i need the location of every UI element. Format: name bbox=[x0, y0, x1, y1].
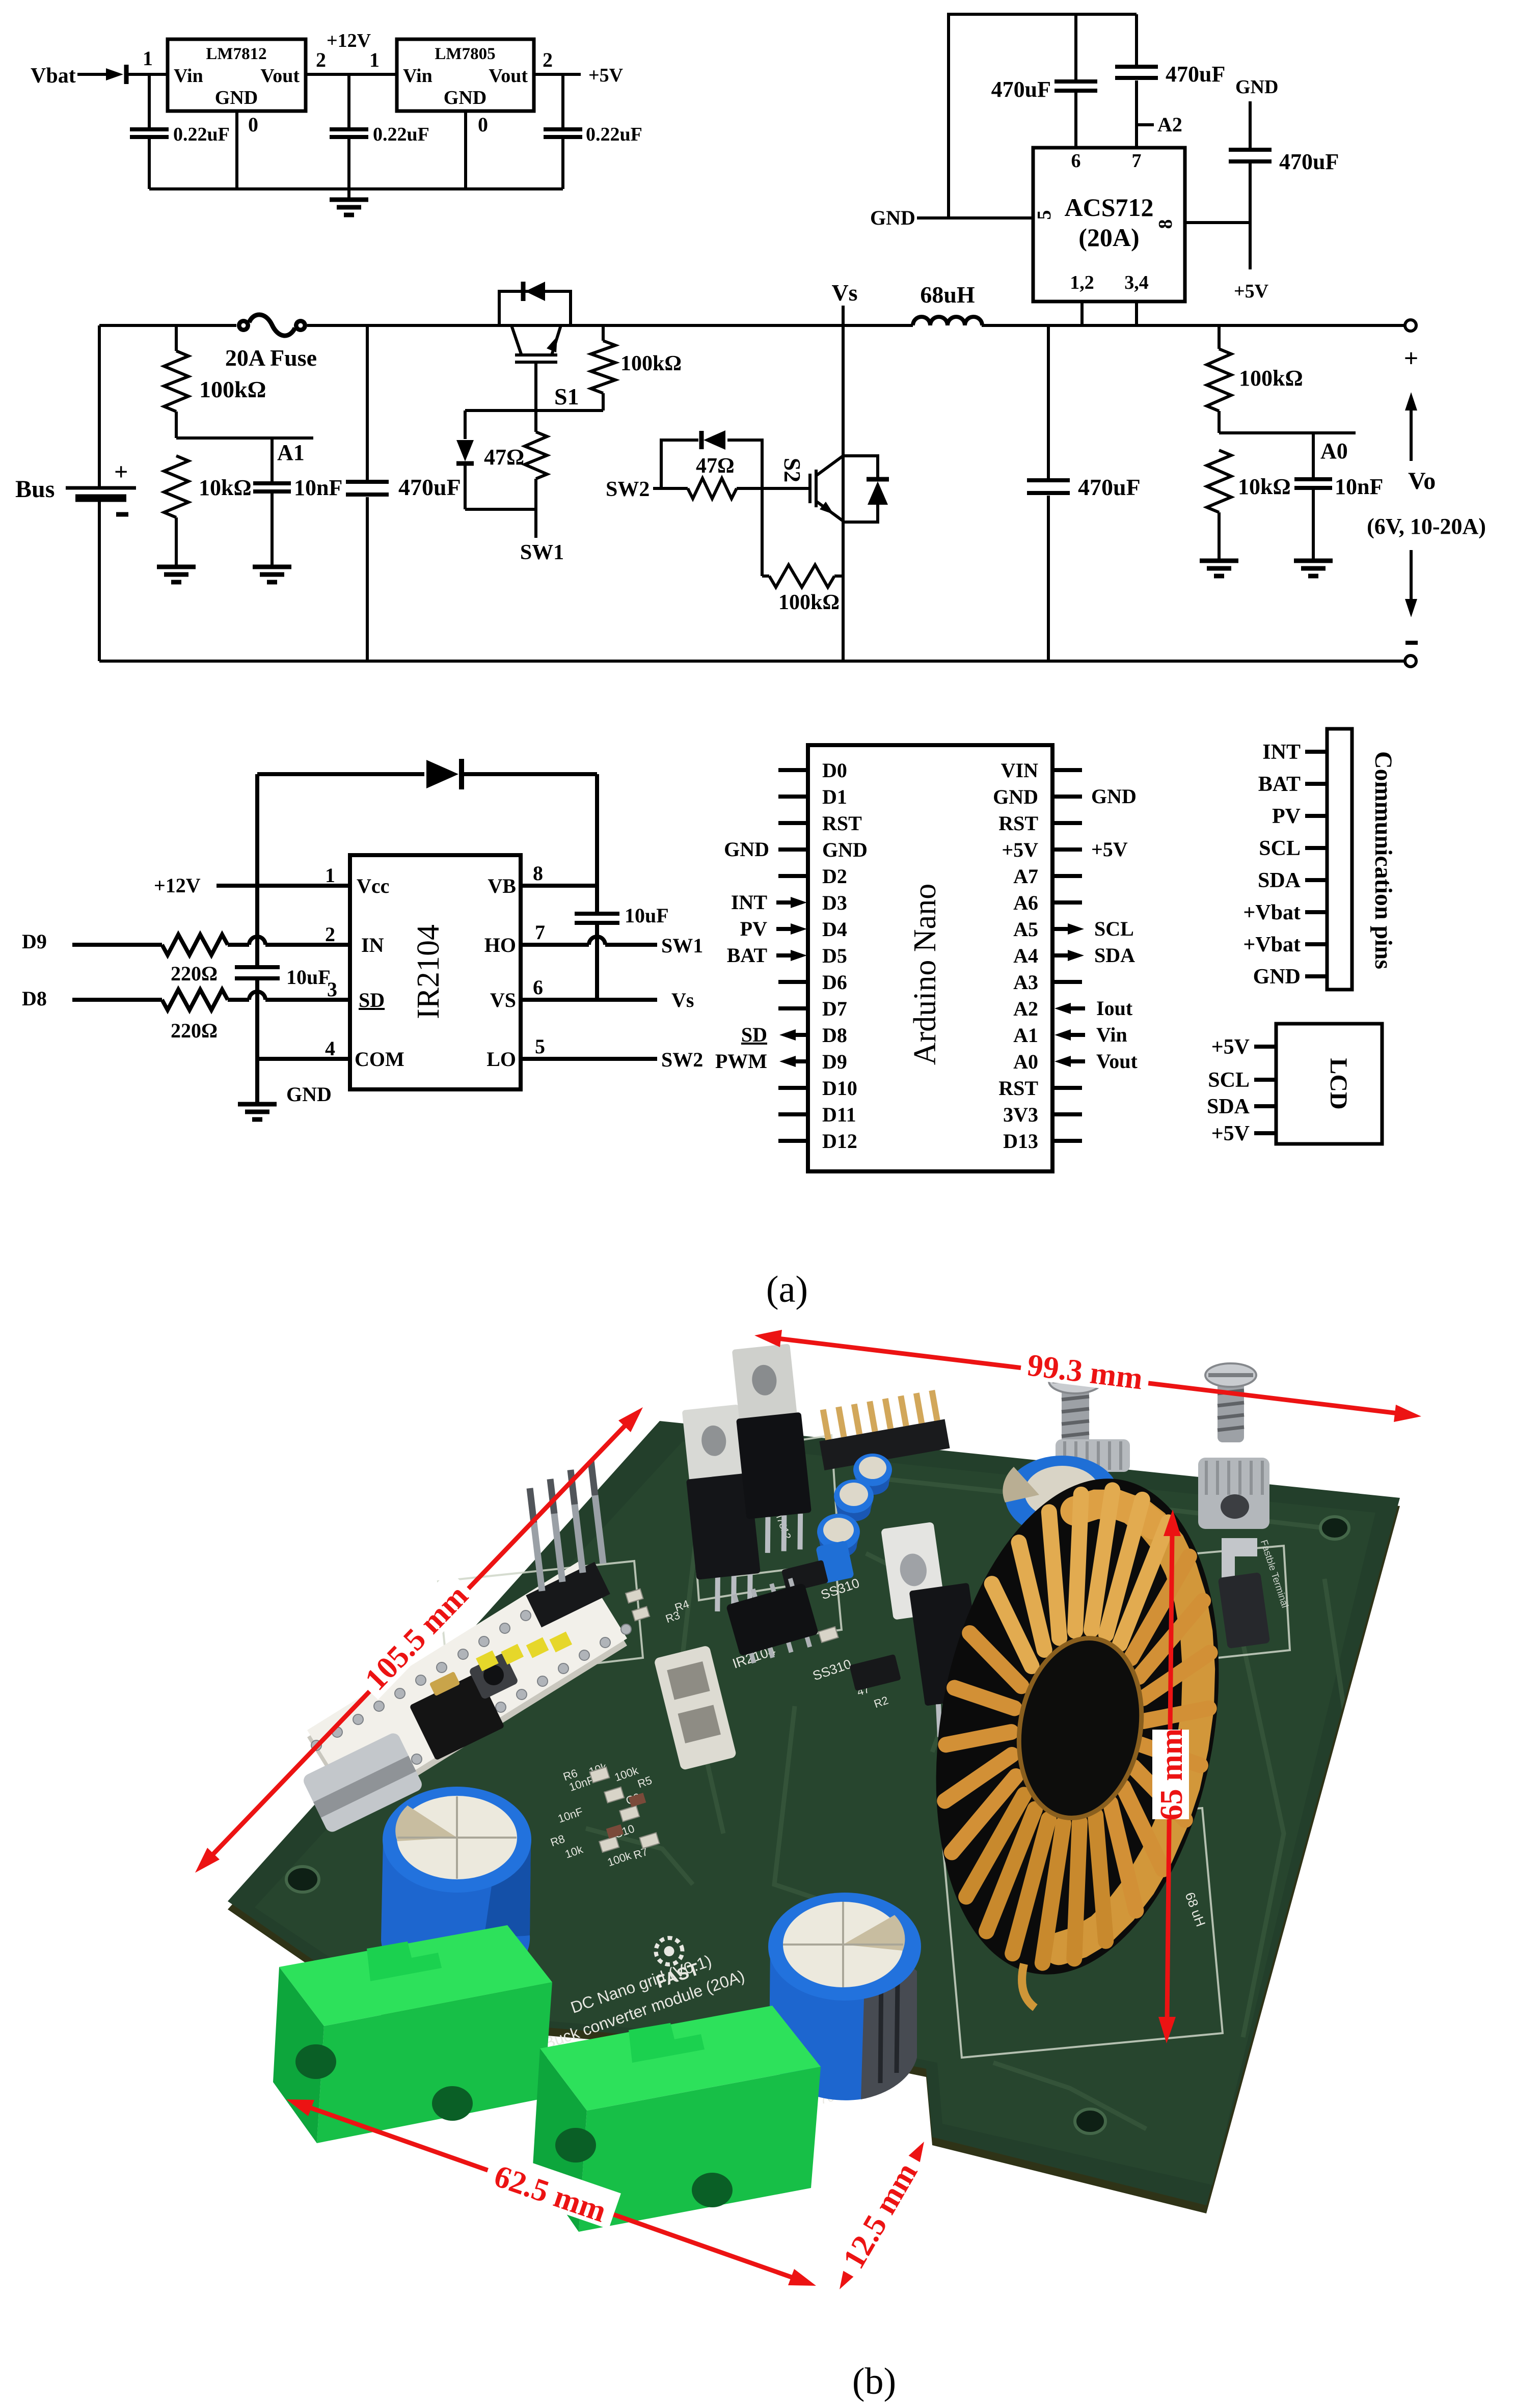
arduino atmega chip bbox=[409, 1672, 504, 1761]
wire VS pin 6 bbox=[521, 998, 657, 1002]
ground A0 filter bbox=[1294, 561, 1333, 576]
svg-text:HO: HO bbox=[484, 934, 516, 956]
svg-text:Vout: Vout bbox=[1096, 1050, 1138, 1073]
svg-text:10nF: 10nF bbox=[1335, 474, 1383, 499]
svg-text:COM: COM bbox=[355, 1048, 404, 1071]
svg-text:0.22uF: 0.22uF bbox=[586, 124, 642, 145]
wire +12V to Vcc pin 1 bbox=[217, 884, 350, 888]
svg-text:SD: SD bbox=[359, 989, 385, 1011]
pin GND (comm) bbox=[1305, 974, 1327, 978]
svg-text:D5: D5 bbox=[822, 944, 847, 967]
wire 7805 Vout to +5V bbox=[534, 73, 581, 76]
capacitor 10nF A0 filter bbox=[1312, 433, 1315, 478]
svg-text:Vo: Vo bbox=[1408, 468, 1436, 495]
pin +5V (LCD) bbox=[1254, 1045, 1276, 1049]
svg-text:0: 0 bbox=[478, 113, 488, 136]
capacitor 470uF (pin6) bbox=[1055, 89, 1097, 93]
arduino mini-usb bbox=[301, 1731, 424, 1835]
svg-text:SW1: SW1 bbox=[661, 934, 703, 957]
capacitor 470uF output bbox=[1047, 325, 1050, 478]
svg-text:A3: A3 bbox=[1013, 971, 1038, 994]
svg-text:+5V: +5V bbox=[1002, 838, 1038, 861]
svg-text:6: 6 bbox=[533, 976, 543, 999]
svg-text:220Ω: 220Ω bbox=[171, 962, 218, 985]
pin header (top) bbox=[814, 1389, 950, 1470]
svg-text:68uH: 68uH bbox=[920, 282, 975, 308]
svg-text:A5: A5 bbox=[1013, 918, 1038, 941]
svg-text:A6: A6 bbox=[1013, 891, 1038, 914]
node A2 stub bbox=[1137, 123, 1154, 126]
wire 7805 GND pin 0 bbox=[464, 111, 467, 189]
inductor L1 68uH bbox=[913, 317, 982, 325]
transistor S2 (IGBT) bbox=[810, 456, 843, 521]
resistor 100k (bus divider upper) bbox=[175, 325, 178, 351]
wire bus left vertical bbox=[98, 325, 101, 487]
svg-text:GND: GND bbox=[1235, 76, 1278, 98]
arduino leds bbox=[476, 1618, 572, 1685]
svg-text:VIN: VIN bbox=[1001, 759, 1038, 782]
svg-text:Vbat: Vbat bbox=[31, 64, 76, 88]
ic IR2104 SOIC8 bbox=[723, 1575, 821, 1666]
wire top rail (bus side) bbox=[99, 324, 236, 327]
svg-text:Arduino Nano: Arduino Nano bbox=[908, 884, 942, 1065]
svg-text:GND: GND bbox=[1253, 965, 1301, 989]
svg-text:BAT: BAT bbox=[727, 944, 768, 967]
PCB traces bbox=[586, 1477, 1355, 2129]
PCB silkscreen outlines bbox=[438, 1435, 1290, 2058]
svg-text:GND: GND bbox=[993, 785, 1038, 808]
svg-text:47Ω: 47Ω bbox=[484, 445, 524, 470]
svg-text:(20A): (20A) bbox=[1078, 223, 1139, 252]
diode bootstrap bbox=[426, 760, 458, 788]
svg-text:D3: D3 bbox=[822, 891, 847, 914]
svg-text:0: 0 bbox=[248, 113, 258, 136]
PCB mounting holes bbox=[1320, 1517, 1349, 1539]
svg-text:2: 2 bbox=[543, 48, 553, 71]
svg-text:470uF: 470uF bbox=[1166, 62, 1225, 87]
svg-text:Vs: Vs bbox=[831, 280, 857, 306]
svg-text:(b): (b) bbox=[852, 2361, 896, 2402]
svg-text:Vcc: Vcc bbox=[357, 874, 389, 897]
resistor 10k (bus divider lower) bbox=[164, 456, 188, 517]
svg-text:+5V: +5V bbox=[1091, 838, 1128, 861]
wire bootstrap top bbox=[257, 772, 424, 776]
transistor S1 (IGBT) bbox=[511, 325, 561, 411]
svg-text:6: 6 bbox=[1071, 150, 1081, 172]
svg-text:+5V: +5V bbox=[1234, 281, 1269, 302]
svg-text:RST: RST bbox=[822, 812, 862, 835]
svg-text:D6: D6 bbox=[822, 971, 847, 994]
wire bottom rail bbox=[99, 660, 1404, 663]
arduino oscillator bbox=[429, 1672, 461, 1696]
svg-text:GND: GND bbox=[215, 87, 258, 108]
capacitor 470uF (pin7) bbox=[1115, 76, 1158, 80]
svg-text:7: 7 bbox=[1132, 150, 1142, 172]
svg-text:INT: INT bbox=[731, 891, 767, 914]
arduino pushbutton bbox=[468, 1652, 519, 1700]
diode SS310 (lower) bbox=[849, 1654, 901, 1691]
svg-text:Vin: Vin bbox=[403, 65, 432, 87]
pin PV (comm) bbox=[1305, 814, 1327, 818]
pin INT (comm) bbox=[1305, 750, 1327, 754]
svg-text:IR2104: IR2104 bbox=[411, 924, 446, 1019]
svg-text:(6V, 10-20A): (6V, 10-20A) bbox=[1367, 514, 1486, 539]
wire ACS712 pin 3,4 to output rail bbox=[1135, 302, 1138, 325]
svg-text:GND: GND bbox=[444, 87, 486, 108]
svg-text:A7: A7 bbox=[1013, 865, 1038, 888]
wire SW1 node bbox=[465, 508, 536, 511]
svg-text:D12: D12 bbox=[822, 1130, 857, 1153]
dimension arrow 105.5 mm bbox=[211, 1424, 627, 1856]
svg-text:+: + bbox=[114, 458, 128, 485]
diode S1 anti-parallel bbox=[499, 291, 571, 325]
svg-text:Vs: Vs bbox=[671, 989, 694, 1011]
capacitor C-mid 0.22uF bbox=[347, 74, 350, 128]
pin SDA (comm) bbox=[1305, 878, 1327, 882]
diode S1 gate speedup bbox=[464, 411, 467, 439]
svg-text:20A Fuse: 20A Fuse bbox=[225, 345, 317, 371]
resistor 220 (D9) bbox=[72, 943, 162, 947]
transistor TO-220 (mid, white tab) bbox=[881, 1518, 989, 1741]
resistor 100k S1 gate-emitter bbox=[602, 325, 605, 341]
svg-text:D8: D8 bbox=[822, 1024, 847, 1047]
node output - terminal bbox=[1405, 655, 1416, 667]
svg-text:LM7805: LM7805 bbox=[435, 45, 495, 63]
svg-text:+5V: +5V bbox=[588, 65, 624, 86]
svg-text:SW2: SW2 bbox=[606, 478, 650, 501]
dimension arrow 99.3 mm bbox=[778, 1338, 1398, 1413]
ground output divider bbox=[1200, 561, 1238, 576]
resistor 220 (D8) bbox=[72, 998, 162, 1002]
wire COM pin 4 to ground bbox=[257, 1057, 350, 1061]
svg-text:INT: INT bbox=[1262, 741, 1301, 764]
svg-text:S2: S2 bbox=[779, 458, 805, 483]
svg-text:PV: PV bbox=[740, 917, 767, 940]
svg-text:0.22uF: 0.22uF bbox=[173, 124, 230, 145]
sensor U-ACS712 bbox=[1033, 148, 1185, 302]
terminal clamp grey (behind toroid) bbox=[1056, 1439, 1130, 1472]
diode S2 anti-parallel bbox=[843, 456, 878, 477]
diode S2 gate speedup bbox=[661, 440, 698, 488]
svg-text:0.22uF: 0.22uF bbox=[373, 124, 429, 145]
svg-text:10nF: 10nF bbox=[294, 475, 342, 500]
PCB board top surface bbox=[228, 1429, 1400, 2213]
terminal clamp grey (right) bbox=[1198, 1458, 1270, 1649]
svg-text:SDA: SDA bbox=[1207, 1095, 1250, 1118]
wire S1 gate node bbox=[465, 409, 603, 412]
svg-text:2: 2 bbox=[325, 923, 335, 946]
svg-text:SDA: SDA bbox=[1258, 869, 1301, 892]
inductor leads bbox=[1022, 1964, 1035, 2008]
fuse F1 20A bbox=[237, 319, 250, 332]
capacitor electrolytic blue (left large) bbox=[381, 1787, 531, 1989]
svg-text:A4: A4 bbox=[1013, 944, 1038, 967]
svg-text:+5V: +5V bbox=[1211, 1122, 1250, 1145]
svg-text:470uF: 470uF bbox=[991, 77, 1051, 102]
svg-text:1: 1 bbox=[369, 48, 380, 71]
svg-text:Vout: Vout bbox=[260, 65, 300, 87]
resistor 10k output divider lower bbox=[1207, 450, 1231, 512]
wire LO pin 5 to SW2 bbox=[521, 1057, 657, 1061]
node A1 line bbox=[176, 436, 313, 440]
capacitor 470uF input bbox=[366, 325, 369, 480]
dimension arrow 12.5 mm bbox=[851, 2162, 912, 2269]
mcu U-Arduino-Nano bbox=[808, 745, 1052, 1171]
svg-text:100kΩ: 100kΩ bbox=[778, 591, 840, 614]
svg-text:D4: D4 bbox=[822, 918, 847, 941]
svg-text:+Vbat: +Vbat bbox=[1243, 933, 1301, 956]
svg-text:(a): (a) bbox=[766, 1269, 808, 1310]
pin +Vbat (comm) bbox=[1305, 942, 1327, 946]
svg-text:470uF: 470uF bbox=[398, 474, 461, 500]
wire top rail (fuse to inductor) bbox=[307, 324, 913, 327]
svg-text:4: 4 bbox=[325, 1037, 335, 1060]
wire Vcc vertical (bootstrap anode / bypass) bbox=[255, 774, 259, 965]
wire 7812 Vout to 7805 Vin (+12V node) bbox=[306, 73, 397, 76]
capacitor C-out 0.22uF bbox=[561, 74, 564, 128]
svg-text:SW2: SW2 bbox=[661, 1048, 703, 1071]
svg-text:D9: D9 bbox=[822, 1050, 847, 1073]
screw (left) bbox=[1049, 1369, 1102, 1451]
svg-text:2: 2 bbox=[316, 48, 326, 71]
resistor 47ohm S1 gate bbox=[534, 411, 537, 432]
dimension arrow 62.5 mm bbox=[308, 2107, 794, 2278]
wire 7812 GND pin 0 bbox=[235, 111, 238, 189]
svg-text:D8: D8 bbox=[22, 987, 47, 1010]
svg-text:100kΩ: 100kΩ bbox=[620, 352, 682, 375]
svg-text:Vin: Vin bbox=[1096, 1023, 1127, 1046]
svg-text:Vout: Vout bbox=[489, 65, 528, 87]
svg-text:+: + bbox=[1404, 344, 1419, 372]
svg-text:47Ω: 47Ω bbox=[696, 454, 735, 478]
wire regulator ground rail bbox=[149, 187, 563, 190]
svg-text:5: 5 bbox=[1034, 210, 1055, 220]
svg-text:D10: D10 bbox=[822, 1077, 857, 1100]
svg-text:GND: GND bbox=[870, 206, 915, 229]
svg-text:Vin: Vin bbox=[174, 65, 203, 87]
wire bootstrap vertical to VB/VS bbox=[595, 774, 599, 912]
svg-text:8: 8 bbox=[1155, 220, 1176, 229]
terminal block green (left) bbox=[273, 1925, 552, 2143]
wire HO pin 7 to SW1 (hop over bootstrap) bbox=[521, 943, 589, 947]
terminal block green (right) bbox=[533, 2006, 821, 2232]
svg-text:470uF: 470uF bbox=[1078, 474, 1141, 500]
capacitor 470uF (Vcc) bbox=[1249, 101, 1252, 148]
capacitor C-in 0.22uF bbox=[148, 74, 151, 128]
svg-text:100kΩ: 100kΩ bbox=[199, 376, 266, 402]
svg-text:VS: VS bbox=[490, 989, 516, 1011]
silkscreen FAST logo bbox=[644, 1931, 702, 1992]
svg-text:RST: RST bbox=[998, 812, 1038, 835]
ground regulator rail bbox=[347, 189, 350, 199]
ground A1 filter bbox=[253, 567, 291, 582]
svg-text:1: 1 bbox=[143, 47, 153, 70]
wire Vbat input with arrow bbox=[77, 73, 168, 76]
wire Vs vertical / S2 collector-emitter bbox=[842, 306, 845, 661]
svg-text:PWM: PWM bbox=[715, 1050, 767, 1073]
svg-text:8: 8 bbox=[533, 862, 543, 885]
PCB copper pour regions bbox=[255, 1441, 1375, 2185]
svg-text:A0: A0 bbox=[1013, 1050, 1038, 1073]
svg-text:A1: A1 bbox=[277, 440, 305, 465]
svg-text:SCL: SCL bbox=[1094, 917, 1134, 940]
svg-text:+Vbat: +Vbat bbox=[1243, 901, 1301, 924]
inductor toroid 68uH bbox=[900, 1456, 1256, 1997]
svg-text:10kΩ: 10kΩ bbox=[199, 475, 252, 500]
wire ACS712 top loop bbox=[949, 14, 1137, 218]
transistor TO-220 pair (regulators) bbox=[673, 1343, 821, 1613]
svg-text:GND: GND bbox=[822, 838, 868, 861]
svg-text:Bus: Bus bbox=[15, 476, 55, 503]
svg-text:Iout: Iout bbox=[1096, 997, 1133, 1020]
pin SDA (LCD) bbox=[1254, 1104, 1276, 1108]
svg-text:1,2: 1,2 bbox=[1070, 272, 1094, 293]
svg-text:SD: SD bbox=[741, 1023, 767, 1046]
svg-text:5: 5 bbox=[535, 1035, 545, 1058]
svg-text:10kΩ: 10kΩ bbox=[1238, 474, 1291, 499]
svg-text:GND: GND bbox=[1091, 785, 1137, 808]
resistor 100k S2 gate-emitter bbox=[769, 565, 834, 587]
screw (right) bbox=[1205, 1363, 1256, 1442]
svg-text:RST: RST bbox=[998, 1077, 1038, 1100]
svg-text:SDA: SDA bbox=[1094, 944, 1135, 967]
wire ACS712 pin7 bbox=[1135, 80, 1138, 148]
svg-text:3,4: 3,4 bbox=[1124, 272, 1149, 293]
svg-text:7: 7 bbox=[535, 921, 545, 944]
pin SCL (LCD) bbox=[1254, 1078, 1276, 1082]
svg-text:D0: D0 bbox=[822, 759, 847, 782]
svg-text:D1: D1 bbox=[822, 785, 847, 808]
svg-text:100kΩ: 100kΩ bbox=[1239, 366, 1303, 391]
svg-text:GND: GND bbox=[286, 1083, 332, 1106]
svg-text:65 mm: 65 mm bbox=[1154, 1729, 1189, 1821]
svg-text:10uF: 10uF bbox=[286, 966, 331, 989]
svg-text:SW1: SW1 bbox=[520, 541, 564, 564]
svg-text:Communication pins: Communication pins bbox=[1370, 751, 1397, 969]
svg-text:LO: LO bbox=[486, 1048, 516, 1071]
dimension arrow 65 mm bbox=[1167, 1533, 1172, 2020]
arduino nano module bbox=[301, 1461, 631, 1834]
wire ACS712 pin6 bbox=[1074, 92, 1077, 148]
connector white (J) bbox=[654, 1645, 737, 1770]
small electrolytic caps (blue) bbox=[853, 1454, 892, 1486]
wire ACS712 pin8 to +5V cap bbox=[1185, 221, 1250, 224]
svg-text:A0: A0 bbox=[1320, 439, 1348, 463]
svg-text:10uF: 10uF bbox=[625, 904, 669, 927]
tall pin header on nano bbox=[526, 1562, 610, 1628]
SMD passives bbox=[532, 1538, 880, 1860]
svg-text:A2: A2 bbox=[1157, 113, 1182, 136]
svg-text:1: 1 bbox=[325, 864, 335, 887]
svg-text:S1: S1 bbox=[554, 384, 579, 409]
svg-text:PV: PV bbox=[1272, 805, 1301, 828]
pin +5V (LCD) bbox=[1254, 1131, 1276, 1135]
regulator U-LM7805 bbox=[397, 39, 534, 111]
svg-text:+12V: +12V bbox=[327, 30, 371, 51]
pin BAT (comm) bbox=[1305, 782, 1327, 786]
node output + terminal bbox=[1405, 320, 1416, 331]
capacitor 10uF bootstrap bbox=[575, 912, 619, 916]
pin +Vbat (comm) bbox=[1305, 910, 1327, 914]
regulator U-LM7812 bbox=[168, 39, 306, 111]
svg-text:VB: VB bbox=[488, 874, 516, 897]
diode SS310 (upper) bbox=[781, 1560, 829, 1593]
svg-text:470uF: 470uF bbox=[1279, 149, 1339, 174]
capacitor electrolytic blue (right large) bbox=[768, 1893, 921, 2100]
svg-text:220Ω: 220Ω bbox=[171, 1019, 218, 1042]
ground bus divider bbox=[157, 567, 196, 582]
svg-text:IN: IN bbox=[361, 934, 384, 956]
svg-text:D13: D13 bbox=[1003, 1130, 1038, 1153]
ground IR2104 bbox=[238, 1104, 277, 1119]
svg-text:A1: A1 bbox=[1013, 1024, 1038, 1047]
svg-text:ACS712: ACS712 bbox=[1064, 193, 1153, 222]
capacitor blue (behind toroid) bbox=[1003, 1456, 1119, 1537]
svg-text:D2: D2 bbox=[822, 865, 847, 888]
capacitor 10nF (A1 filter) bbox=[271, 438, 274, 482]
svg-text:D11: D11 bbox=[822, 1103, 856, 1126]
display LCD bbox=[1276, 1024, 1382, 1144]
connector Communication pins bbox=[1327, 729, 1352, 990]
diode D-in bar bbox=[124, 65, 129, 84]
svg-text:+5V: +5V bbox=[1211, 1035, 1250, 1059]
wire VB pin 8 bbox=[521, 884, 597, 888]
svg-text:D7: D7 bbox=[822, 997, 847, 1020]
resistor 47ohm S2 gate bbox=[653, 487, 688, 490]
node A0 line bbox=[1219, 431, 1356, 434]
wire ACS712 pin 1,2 to switch rail bbox=[1080, 302, 1084, 325]
svg-text:SCL: SCL bbox=[1259, 837, 1301, 860]
svg-text:3V3: 3V3 bbox=[1003, 1103, 1038, 1126]
svg-text:BAT: BAT bbox=[1258, 773, 1301, 796]
svg-text:A2: A2 bbox=[1013, 997, 1038, 1020]
svg-text:SCL: SCL bbox=[1208, 1069, 1250, 1092]
svg-text:D9: D9 bbox=[22, 930, 47, 953]
pin SCL (comm) bbox=[1305, 846, 1327, 850]
svg-text:LCD: LCD bbox=[1325, 1058, 1352, 1109]
svg-text:+12V: +12V bbox=[154, 874, 201, 897]
driver U-IR2104 bbox=[350, 855, 521, 1089]
svg-text:GND: GND bbox=[724, 838, 769, 861]
capacitor 10uF (Vcc bypass) bbox=[235, 965, 280, 969]
resistor 100k output divider upper bbox=[1218, 325, 1221, 349]
wire top rail (inductor to output +) bbox=[982, 324, 1404, 327]
svg-text:LM7812: LM7812 bbox=[206, 45, 266, 63]
